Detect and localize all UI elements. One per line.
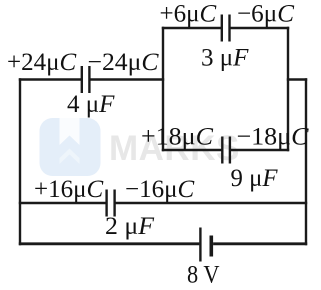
wire: 3uF branch left — [162, 27, 221, 29]
svg-text:+6μC: +6μC — [160, 1, 217, 28]
wire: left vertical — [19, 78, 21, 245]
svg-text:+18μC: +18μC — [141, 124, 213, 151]
wire: 9uF branch right — [231, 149, 290, 151]
wire: battery to bottom right — [213, 242, 307, 245]
svg-text:−24μC: −24μC — [88, 49, 159, 76]
capacitor C4 plate left (2uF) — [105, 190, 107, 217]
svg-text:−16μC: −16μC — [125, 176, 195, 203]
wire: 9uF branch left — [162, 149, 222, 151]
capacitor C3 plate left (9uF) — [221, 137, 223, 164]
svg-text:+24μC: +24μC — [7, 49, 77, 76]
svg-text:8 V: 8 V — [187, 262, 220, 289]
svg-text:−6μC: −6μC — [237, 1, 294, 28]
wire: 3uF branch right — [230, 27, 289, 29]
capacitor C1 plate right (4uF) — [88, 66, 90, 93]
svg-text:−18μC: −18μC — [237, 124, 309, 151]
svg-text:2 μF: 2 μF — [105, 213, 155, 240]
capacitor C2 plate left (3uF) — [221, 15, 223, 42]
wire: parallel-section left vertical — [162, 27, 164, 151]
svg-text:3 μF: 3 μF — [201, 45, 249, 72]
capacitor C4 plate right (2uF) — [113, 190, 115, 217]
wire: 4uF branch left — [19, 78, 81, 80]
wire: 2uF branch right — [116, 202, 308, 204]
svg-text:9 μF: 9 μF — [231, 165, 279, 192]
svg-text:4 μF: 4 μF — [67, 91, 115, 118]
svg-text:+16μC: +16μC — [34, 176, 104, 203]
wire: jog to outer right — [287, 78, 307, 80]
wire: 4uF branch right — [90, 78, 164, 80]
wire: parallel-section right vertical — [287, 27, 289, 151]
wire: bottom left to battery — [19, 242, 200, 245]
battery B1 long plate — [199, 228, 201, 262]
watermark logo — [40, 118, 101, 176]
capacitor C1 plate left (4uF) — [81, 66, 83, 93]
wire: 2uF branch left — [19, 202, 106, 204]
capacitor C2 plate right (3uF) — [228, 15, 230, 42]
capacitor C3 plate right (9uF) — [229, 137, 231, 164]
battery B1 short plate — [210, 236, 214, 257]
wire: outer right vertical — [305, 78, 307, 245]
